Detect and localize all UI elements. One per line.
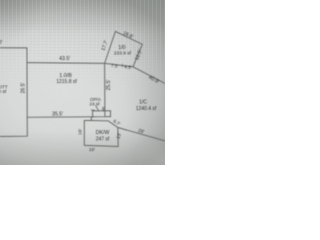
svg-text:16': 16' [89,147,95,153]
svg-text:8': 8' [0,40,2,46]
svg-text:233.9 sf: 233.9 sf [114,50,132,56]
garage 1/0 parallelogram [105,31,143,66]
svg-text:0 sf: 0 sf [0,89,7,95]
svg-text:16': 16' [78,129,84,135]
svg-text:1215.8 sf: 1215.8 sf [56,79,77,85]
svg-text:35.5': 35.5' [52,112,63,118]
svg-text:8': 8' [102,106,105,111]
deck DK/W outline [84,121,118,147]
jog wire between 1.0/B and DK/W [90,117,92,121]
svg-text:17.7': 17.7' [100,40,109,52]
lot line 28 ft [118,128,166,142]
svg-text:25.5': 25.5' [106,80,112,91]
left building DTT outline (clipped at left edge) [0,48,27,137]
svg-text:247 sf: 247 sf [96,136,110,142]
svg-text:6.7': 6.7' [112,118,121,126]
8ft tick [102,110,104,111]
svg-text:24 sf: 24 sf [90,101,101,106]
room 1.0/B rectangle [27,63,110,118]
svg-text:4.5': 4.5' [124,64,132,70]
OP/A leader arrow [96,106,99,111]
svg-text:DK/W: DK/W [96,130,110,136]
tick on 7.5/4.5 split [121,64,123,66]
svg-text:1240.4 sf: 1240.4 sf [136,106,157,112]
OP/A tick marks [91,110,94,117]
porch OP/A rectangle [93,111,111,117]
svg-text:1/C: 1/C [139,99,147,105]
svg-text:16.6': 16.6' [122,30,134,40]
svg-text:43.5': 43.5' [59,56,70,62]
svg-text:40.9': 40.9' [147,75,160,86]
svg-text:26.5': 26.5' [21,83,27,94]
lot line 40.9 ft [133,67,166,84]
svg-text:13': 13' [116,132,124,140]
svg-text:1/0: 1/0 [118,45,125,51]
svg-text:7.5': 7.5' [111,63,119,69]
svg-text:12.5': 12.5' [134,49,144,61]
svg-text:28': 28' [137,128,145,135]
